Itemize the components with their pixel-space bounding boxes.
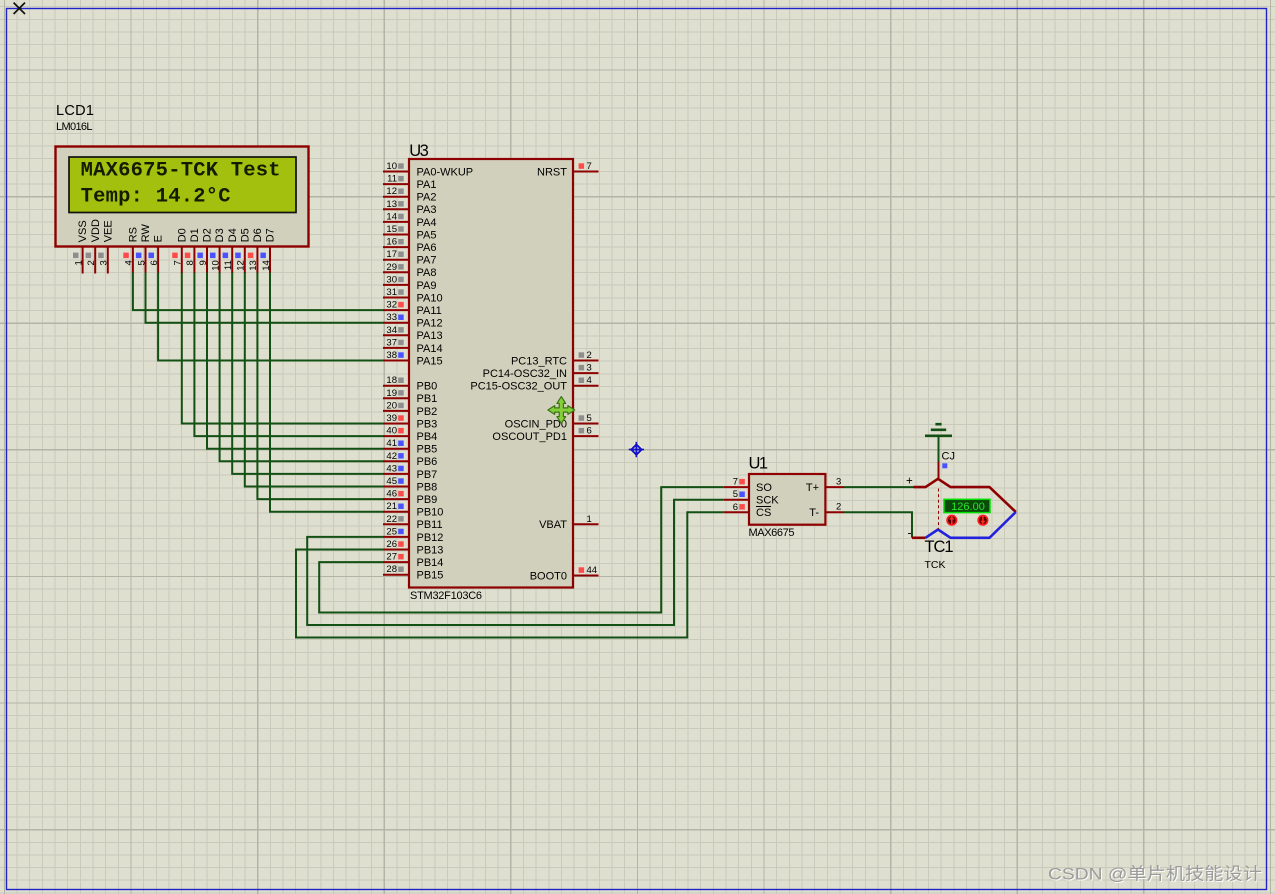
svg-text:7: 7 — [733, 477, 738, 488]
svg-text:D0: D0 — [176, 228, 188, 242]
U1 pin 3 (T+) — [825, 476, 844, 487]
svg-text:12: 12 — [236, 260, 247, 271]
U3 pin 16 (PA6) — [383, 237, 436, 254]
svg-text:41: 41 — [386, 438, 397, 449]
svg-text:45: 45 — [386, 476, 397, 487]
U1 value MAX6675 — [749, 527, 795, 539]
svg-text:CSDN @单片机技能设计: CSDN @单片机技能设计 — [1048, 865, 1262, 884]
svg-text:22: 22 — [386, 514, 397, 525]
U3 pin 20 (PB2) — [383, 400, 437, 417]
svg-text:STM32F103C6: STM32F103C6 — [410, 590, 482, 602]
U3 pin 40 (PB4) — [383, 426, 437, 443]
svg-text:21: 21 — [386, 501, 397, 512]
svg-text:11: 11 — [387, 174, 397, 185]
U3 pin 6 (OSCOUT_PD1) — [492, 426, 598, 443]
svg-text:PB12: PB12 — [417, 532, 444, 544]
svg-text:46: 46 — [386, 489, 397, 500]
svg-text:PB1: PB1 — [417, 393, 438, 405]
svg-text:44: 44 — [587, 565, 598, 576]
LCD1 pin 7 (D0) — [172, 228, 188, 273]
svg-text:9: 9 — [198, 260, 209, 265]
svg-text:+: + — [906, 476, 913, 488]
svg-text:PA14: PA14 — [417, 343, 443, 355]
U3 pin 34 (PA13) — [383, 325, 443, 342]
svg-text:2: 2 — [587, 350, 592, 361]
LCD1 pin 3 (VEE) — [98, 220, 114, 273]
svg-text:39: 39 — [386, 413, 397, 424]
U3 pin 25 (PB12) — [383, 526, 443, 543]
U1 pin 2 (T-) — [825, 502, 844, 513]
U3 pin 44 (BOOT0) — [530, 565, 599, 582]
svg-text:SCK: SCK — [756, 495, 779, 507]
svg-text:7: 7 — [587, 161, 592, 172]
U3 body — [409, 159, 573, 588]
svg-text:12: 12 — [386, 186, 397, 197]
U3 pin 15 (PA5) — [383, 224, 436, 241]
svg-text:7: 7 — [173, 260, 184, 265]
LCD LCD1 body — [56, 147, 309, 247]
wire ground to TC1 CJ node — [938, 437, 940, 462]
U3 pin 7 (NRST) — [537, 161, 598, 178]
svg-text:38: 38 — [386, 350, 397, 361]
svg-text:E: E — [153, 235, 165, 242]
svg-text:VDD: VDD — [90, 219, 102, 242]
U3 pin 21 (PB10) — [383, 501, 443, 518]
U3 pin 5 (OSCIN_PD0) — [505, 413, 599, 430]
svg-text:D6: D6 — [252, 228, 264, 242]
svg-text:4: 4 — [124, 260, 135, 265]
U3 pin 27 (PB14) — [383, 552, 443, 569]
U1 body — [749, 474, 825, 525]
wire LCD1 D1 to U3 PB4 — [194, 273, 383, 437]
svg-text:D5: D5 — [239, 228, 251, 242]
LCD1 pin 5 (RW) — [136, 224, 152, 274]
svg-text:20: 20 — [386, 400, 397, 411]
U3 pin 2 (PC13_RTC) — [511, 350, 599, 367]
LCD1 pin 11 (D4) — [223, 228, 239, 273]
LCD1 pin 4 (RS) — [123, 227, 139, 273]
svg-text:6: 6 — [587, 426, 592, 437]
svg-text:VBAT: VBAT — [539, 519, 567, 531]
svg-text:8: 8 — [185, 260, 196, 265]
MCU U3 reference label — [409, 142, 429, 160]
svg-text:33: 33 — [386, 312, 397, 323]
svg-text:PB4: PB4 — [417, 431, 438, 443]
U3 pin 1 (VBAT) — [539, 514, 598, 531]
svg-text:2: 2 — [86, 260, 97, 265]
U3 pin 42 (PB6) — [383, 451, 437, 468]
svg-text:RW: RW — [140, 224, 152, 243]
svg-text:PB14: PB14 — [417, 557, 444, 569]
U3 pin 38 (PA15) — [383, 350, 443, 367]
svg-text:5: 5 — [733, 489, 738, 500]
svg-text:10: 10 — [210, 260, 221, 271]
LCD1 pin 14 (D7) — [260, 228, 276, 273]
U3 pin 19 (PB1) — [383, 388, 437, 405]
svg-text:28: 28 — [386, 564, 397, 575]
wire LCD1 D0 to U3 PB3 — [182, 273, 384, 424]
svg-text:19: 19 — [386, 388, 397, 399]
svg-text:PB7: PB7 — [417, 469, 438, 481]
svg-text:T+: T+ — [806, 482, 819, 494]
svg-text:1: 1 — [73, 260, 84, 265]
TC1 reference label — [925, 538, 954, 556]
svg-text:CS: CS — [756, 507, 771, 519]
svg-text:T-: T- — [809, 507, 819, 519]
U3 pin 41 (PB5) — [383, 438, 437, 455]
origin marker crosshair — [629, 442, 644, 457]
svg-text:11: 11 — [223, 260, 234, 270]
svg-text:PA6: PA6 — [417, 242, 437, 254]
TC1 up button — [947, 516, 956, 525]
svg-text:LCD1: LCD1 — [56, 103, 94, 119]
U3 pin 11 (PA1) — [383, 174, 436, 191]
svg-text:PA7: PA7 — [417, 255, 437, 267]
svg-text:CJ: CJ — [942, 451, 955, 463]
U1 pin 6 (CS) — [724, 502, 749, 513]
svg-text:6: 6 — [733, 502, 738, 513]
svg-text:14: 14 — [261, 260, 272, 271]
svg-text:RS: RS — [128, 227, 140, 242]
svg-text:D4: D4 — [227, 228, 239, 242]
svg-text:U3: U3 — [409, 142, 429, 160]
svg-text:13: 13 — [248, 260, 259, 271]
svg-text:PB13: PB13 — [417, 544, 444, 556]
svg-text:13: 13 — [386, 199, 397, 210]
svg-text:-: - — [908, 526, 912, 540]
svg-text:PA10: PA10 — [417, 292, 443, 304]
U3 pin 33 (PA12) — [383, 312, 443, 329]
LCD LCD1 reference label — [56, 103, 94, 119]
svg-text:PB8: PB8 — [417, 481, 438, 493]
svg-text:27: 27 — [386, 552, 397, 563]
wire U1 T- to TC1 minus terminal — [844, 512, 912, 538]
svg-text:PA8: PA8 — [417, 267, 437, 279]
U3 pin 45 (PB8) — [383, 476, 437, 493]
svg-text:PB11: PB11 — [417, 519, 443, 531]
svg-text:OSCIN_PD0: OSCIN_PD0 — [505, 418, 567, 430]
svg-text:42: 42 — [386, 451, 397, 462]
U3 pin 32 (PA11) — [383, 300, 442, 317]
U3 pin 28 (PB15) — [383, 564, 443, 581]
U3 pin 18 (PB0) — [383, 375, 437, 392]
wire LCD1 D2 to U3 PB5 — [207, 273, 384, 449]
ground — [925, 424, 952, 436]
wire LCD1 D7 to U3 PB10 — [270, 273, 384, 512]
U3 pin 39 (PB3) — [383, 413, 437, 430]
svg-text:6: 6 — [149, 260, 160, 265]
node CJ — [942, 451, 955, 469]
svg-text:PB15: PB15 — [417, 570, 444, 582]
svg-text:MAX6675: MAX6675 — [749, 527, 795, 539]
U3 pin 30 (PA9) — [383, 274, 436, 291]
U1 pin 7 (SO) — [724, 477, 749, 488]
svg-text:PB3: PB3 — [417, 418, 438, 430]
U3 pin 10 (PA0-WKUP) — [383, 161, 473, 178]
svg-text:14: 14 — [386, 211, 397, 222]
svg-text:18: 18 — [386, 375, 397, 386]
svg-text:D2: D2 — [202, 228, 214, 242]
svg-text:31: 31 — [386, 287, 397, 298]
svg-text:2: 2 — [836, 502, 841, 513]
svg-text:10: 10 — [386, 161, 397, 172]
svg-text:D1: D1 — [189, 228, 201, 242]
svg-text:40: 40 — [386, 426, 397, 437]
svg-text:43: 43 — [386, 463, 397, 474]
svg-text:PA1: PA1 — [417, 179, 437, 191]
svg-text:5: 5 — [587, 413, 592, 424]
IC U1 reference label — [749, 455, 769, 473]
TC1 down button — [978, 516, 987, 525]
TC1 temperature display value 126.00 — [944, 499, 990, 513]
svg-text:PA13: PA13 — [417, 330, 443, 342]
LCD1 pin 1 (VSS) — [73, 220, 89, 273]
svg-text:PA4: PA4 — [417, 217, 437, 229]
svg-text:3: 3 — [99, 260, 110, 265]
svg-text:5: 5 — [136, 260, 147, 265]
svg-text:PA0-WKUP: PA0-WKUP — [417, 166, 474, 178]
svg-text:3: 3 — [836, 476, 841, 487]
wire U3 PB12 to U1 SCK — [307, 500, 724, 625]
move cursor icon — [548, 397, 575, 424]
LCD1 pin 10 (D3) — [210, 228, 226, 273]
svg-text:PB5: PB5 — [417, 444, 438, 456]
svg-text:D7: D7 — [265, 228, 277, 242]
svg-text:PA2: PA2 — [417, 192, 437, 204]
svg-text:NRST: NRST — [537, 166, 567, 178]
svg-text:PB9: PB9 — [417, 494, 438, 506]
wire LCD1 D4 to U3 PB7 — [232, 273, 383, 474]
svg-text:4: 4 — [587, 375, 592, 386]
svg-text:15: 15 — [386, 224, 397, 235]
wire LCD1 RW to U3 PA12 — [146, 273, 384, 323]
U3 pin 14 (PA4) — [383, 211, 436, 228]
U3 pin 46 (PB9) — [383, 489, 437, 506]
wire LCD1 D5 to U3 PB8 — [245, 273, 384, 487]
svg-text:PC14-OSC32_IN: PC14-OSC32_IN — [483, 368, 567, 380]
svg-text:PA9: PA9 — [417, 280, 437, 292]
svg-text:BOOT0: BOOT0 — [530, 570, 567, 582]
wire LCD1 RS to U3 PA11 — [133, 273, 384, 311]
U3 pin 12 (PA2) — [383, 186, 436, 203]
svg-text:PB10: PB10 — [417, 507, 444, 519]
svg-text:30: 30 — [386, 274, 397, 285]
LCD1 value LM016L — [56, 121, 93, 133]
svg-text:SO: SO — [756, 482, 772, 494]
U1 pin 5 (SCK) — [724, 489, 749, 500]
wire U1 T+ to TC1 plus terminal — [844, 486, 914, 488]
svg-text:32: 32 — [386, 300, 397, 311]
U3 pin 17 (PA7) — [383, 249, 436, 266]
svg-text:29: 29 — [386, 262, 397, 273]
wire U3 PB13 to U1 CS — [296, 512, 724, 637]
svg-text:17: 17 — [386, 249, 397, 260]
svg-text:34: 34 — [386, 325, 397, 336]
svg-text:PA15: PA15 — [417, 355, 443, 367]
svg-text:D3: D3 — [214, 228, 226, 242]
wire U3 PB14 to U1 SO — [319, 487, 724, 612]
wire LCD1 D6 to U3 PB9 — [257, 273, 383, 500]
svg-text:LM016L: LM016L — [56, 121, 93, 133]
thermocouple TC1 body — [912, 479, 1016, 538]
wire CJ to TC1 cold junction — [938, 462, 940, 480]
U3 value STM32F103C6 — [410, 590, 482, 602]
svg-text:U1: U1 — [749, 455, 769, 473]
svg-text:TCK: TCK — [925, 559, 946, 571]
svg-text:OSCOUT_PD1: OSCOUT_PD1 — [492, 431, 567, 443]
svg-text:PB6: PB6 — [417, 456, 438, 468]
U3 pin 29 (PA8) — [383, 262, 436, 279]
svg-text:126.00: 126.00 — [951, 501, 985, 513]
TC1 minus sign — [908, 526, 912, 540]
LCD1 pin 9 (D2) — [197, 228, 213, 273]
svg-text:PC15-OSC32_OUT: PC15-OSC32_OUT — [470, 381, 567, 393]
svg-text:MAX6675-TCK Test: MAX6675-TCK Test — [81, 160, 281, 183]
wire LCD1 E to U3 PA15 — [158, 273, 383, 361]
TC1 plus sign — [906, 476, 913, 488]
svg-text:3: 3 — [587, 363, 592, 374]
svg-text:PA11: PA11 — [417, 305, 442, 317]
U3 pin 31 (PA10) — [383, 287, 443, 304]
U3 pin 13 (PA3) — [383, 199, 436, 216]
U3 pin 43 (PB7) — [383, 463, 437, 480]
svg-text:PA5: PA5 — [417, 229, 437, 241]
svg-text:1: 1 — [587, 514, 592, 525]
TC1 value TCK — [925, 559, 946, 571]
LCD1 pin 2 (VDD) — [86, 219, 102, 273]
svg-text:16: 16 — [386, 237, 397, 248]
U3 pin 26 (PB13) — [383, 539, 443, 556]
U3 pin 4 (PC15-OSC32_OUT) — [470, 375, 598, 392]
LCD1 pin 6 (E) — [149, 235, 165, 274]
svg-text:PA3: PA3 — [417, 204, 437, 216]
U3 pin 37 (PA14) — [383, 337, 443, 354]
svg-text:PA12: PA12 — [417, 318, 443, 330]
svg-text:TC1: TC1 — [925, 538, 954, 556]
svg-text:26: 26 — [386, 539, 397, 550]
svg-text:PB0: PB0 — [417, 381, 438, 393]
wire LCD1 D3 to U3 PB6 — [220, 273, 384, 462]
svg-text:PB2: PB2 — [417, 406, 438, 418]
U3 pin 22 (PB11) — [383, 514, 443, 531]
svg-text:Temp: 14.2°C: Temp: 14.2°C — [81, 186, 231, 209]
svg-text:PC13_RTC: PC13_RTC — [511, 355, 567, 367]
LCD1 pin 13 (D6) — [248, 228, 264, 273]
U3 pin 3 (PC14-OSC32_IN) — [483, 363, 599, 380]
svg-text:VEE: VEE — [102, 220, 114, 242]
LCD1 pin 8 (D1) — [185, 228, 201, 273]
svg-text:25: 25 — [386, 526, 397, 537]
LCD1 pin 12 (D5) — [235, 228, 251, 273]
svg-text:37: 37 — [386, 337, 397, 348]
svg-text:VSS: VSS — [77, 220, 89, 242]
